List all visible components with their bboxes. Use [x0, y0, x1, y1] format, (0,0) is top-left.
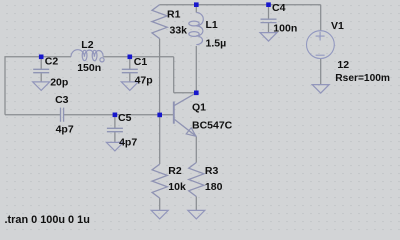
- svg-text:C1: C1: [134, 56, 148, 68]
- wire R2 bottom lead: [159, 198, 161, 210]
- svg-text:Q1: Q1: [192, 102, 206, 114]
- wire R2 top lead: [159, 115, 161, 164]
- node junction top L1: [194, 2, 199, 7]
- resistor R1: [152, 5, 167, 39]
- wire L1 bottom lead to collector node: [195, 46, 197, 93]
- capacitor C5: [107, 128, 123, 131]
- capacitor C2: [33, 69, 49, 72]
- svg-text:L2: L2: [81, 39, 93, 51]
- wire R3 bottom lead: [195, 197, 197, 211]
- ground (R2): [151, 210, 168, 219]
- voltage source V1: [307, 31, 335, 59]
- wire L1 top lead: [195, 5, 197, 13]
- ground (V1): [312, 85, 329, 94]
- wire top rail from R1 top to V1: [160, 4, 321, 6]
- wire C5 leads: [114, 115, 116, 143]
- svg-text:R3: R3: [205, 165, 219, 177]
- svg-text:R1: R1: [167, 9, 181, 21]
- node junction collector: [194, 91, 199, 96]
- svg-text:100n: 100n: [273, 22, 297, 34]
- ground (C5): [106, 142, 123, 151]
- svg-text:10k: 10k: [168, 181, 186, 193]
- resistor R2: [152, 164, 167, 198]
- ground (C4): [260, 33, 277, 42]
- svg-text:L1: L1: [206, 19, 218, 31]
- wire C2 leads: [40, 57, 42, 82]
- svg-text:47p: 47p: [135, 75, 153, 87]
- svg-text:12: 12: [337, 59, 349, 71]
- wire mid rail right: L2 end through C1 junction to corner: [103, 56, 174, 58]
- wire V1 top lead: [320, 5, 322, 31]
- wire tank-to-collector horizontal: [174, 92, 197, 94]
- transistor Q1 BC547C: [174, 93, 197, 137]
- svg-text:BC547C: BC547C: [192, 120, 233, 132]
- svg-text:4p7: 4p7: [119, 137, 137, 149]
- svg-text:C5: C5: [118, 112, 132, 124]
- wire low rail: C3 to Q1 base: [64, 114, 174, 116]
- inductor L2: [71, 50, 104, 62]
- ground (C1): [121, 82, 138, 91]
- svg-text:C3: C3: [55, 94, 69, 106]
- svg-text:1.5µ: 1.5µ: [206, 38, 227, 50]
- wire C1 leads: [129, 57, 131, 82]
- ground (R3): [188, 210, 205, 219]
- ground (C2): [33, 82, 50, 91]
- wire mid rail left: corner to L2: [5, 57, 71, 115]
- capacitor C1: [122, 69, 138, 72]
- svg-text:150n: 150n: [77, 62, 101, 74]
- node junction C2 top: [39, 55, 44, 60]
- node junction C4 top: [266, 2, 271, 7]
- svg-text:180: 180: [205, 181, 223, 193]
- inductor L1: [189, 13, 204, 45]
- capacitor C3 (series, horizontal): [61, 108, 64, 122]
- wire V1 bottom lead: [320, 59, 322, 85]
- svg-text:R2: R2: [168, 165, 182, 177]
- svg-text:C2: C2: [45, 56, 59, 68]
- node junction C1 top: [128, 55, 133, 60]
- capacitor C4: [261, 19, 277, 22]
- svg-text:V1: V1: [331, 20, 344, 32]
- svg-text:.tran 0 100u 0 1u: .tran 0 100u 0 1u: [5, 214, 90, 226]
- svg-text:4p7: 4p7: [56, 124, 74, 136]
- resistor R3: [189, 163, 204, 197]
- wire tank-to-collector vertical: [173, 57, 175, 93]
- svg-text:33k: 33k: [170, 25, 188, 37]
- wire R1 bottom lead to base node: [159, 39, 161, 115]
- node junction C5 top: [113, 113, 118, 118]
- wire C4 leads: [268, 5, 270, 33]
- svg-text:20p: 20p: [50, 76, 68, 88]
- svg-text:C4: C4: [272, 2, 286, 14]
- svg-text:Rser=100m: Rser=100m: [335, 73, 390, 84]
- node junction base: [157, 113, 162, 118]
- wire low rail: left corner to C3: [5, 114, 60, 116]
- wire Q1 emitter lead: [195, 136, 197, 162]
